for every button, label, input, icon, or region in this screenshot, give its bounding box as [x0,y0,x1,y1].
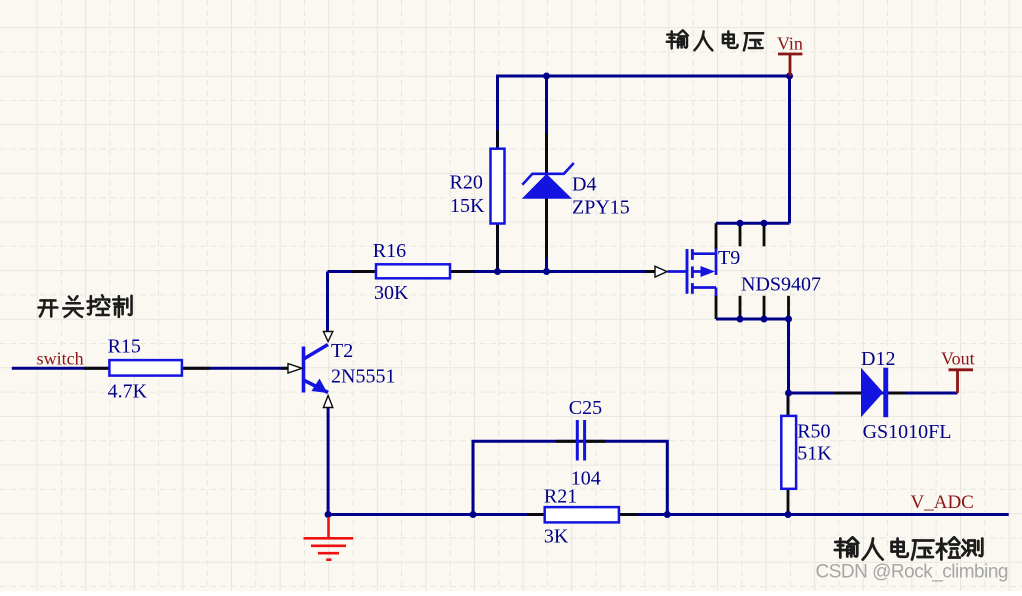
svg-text:T9: T9 [718,247,740,269]
svg-text:4.7K: 4.7K [108,381,148,403]
svg-text:C25: C25 [569,397,602,419]
svg-text:GS1010FL: GS1010FL [863,421,952,443]
svg-text:switch: switch [37,349,84,369]
svg-text:Vout: Vout [941,349,975,369]
svg-text:51K: 51K [797,443,832,465]
svg-text:Vin: Vin [777,34,803,54]
svg-text:NDS9407: NDS9407 [741,274,821,296]
svg-text:30K: 30K [374,282,409,304]
svg-text:R21: R21 [544,486,577,508]
svg-text:CSDN @Rock_climbing: CSDN @Rock_climbing [816,562,1008,583]
svg-text:2N5551: 2N5551 [331,366,395,388]
svg-text:D4: D4 [572,174,596,196]
svg-text:D12: D12 [861,348,895,370]
svg-text:15K: 15K [450,195,485,217]
svg-text:3K: 3K [544,526,569,548]
svg-text:V_ADC: V_ADC [911,492,974,513]
svg-text:T2: T2 [331,340,353,362]
svg-text:R20: R20 [450,172,483,194]
svg-text:ZPY15: ZPY15 [572,197,630,219]
svg-text:R50: R50 [797,421,830,443]
svg-text:R16: R16 [373,240,406,262]
svg-text:R15: R15 [108,336,141,358]
